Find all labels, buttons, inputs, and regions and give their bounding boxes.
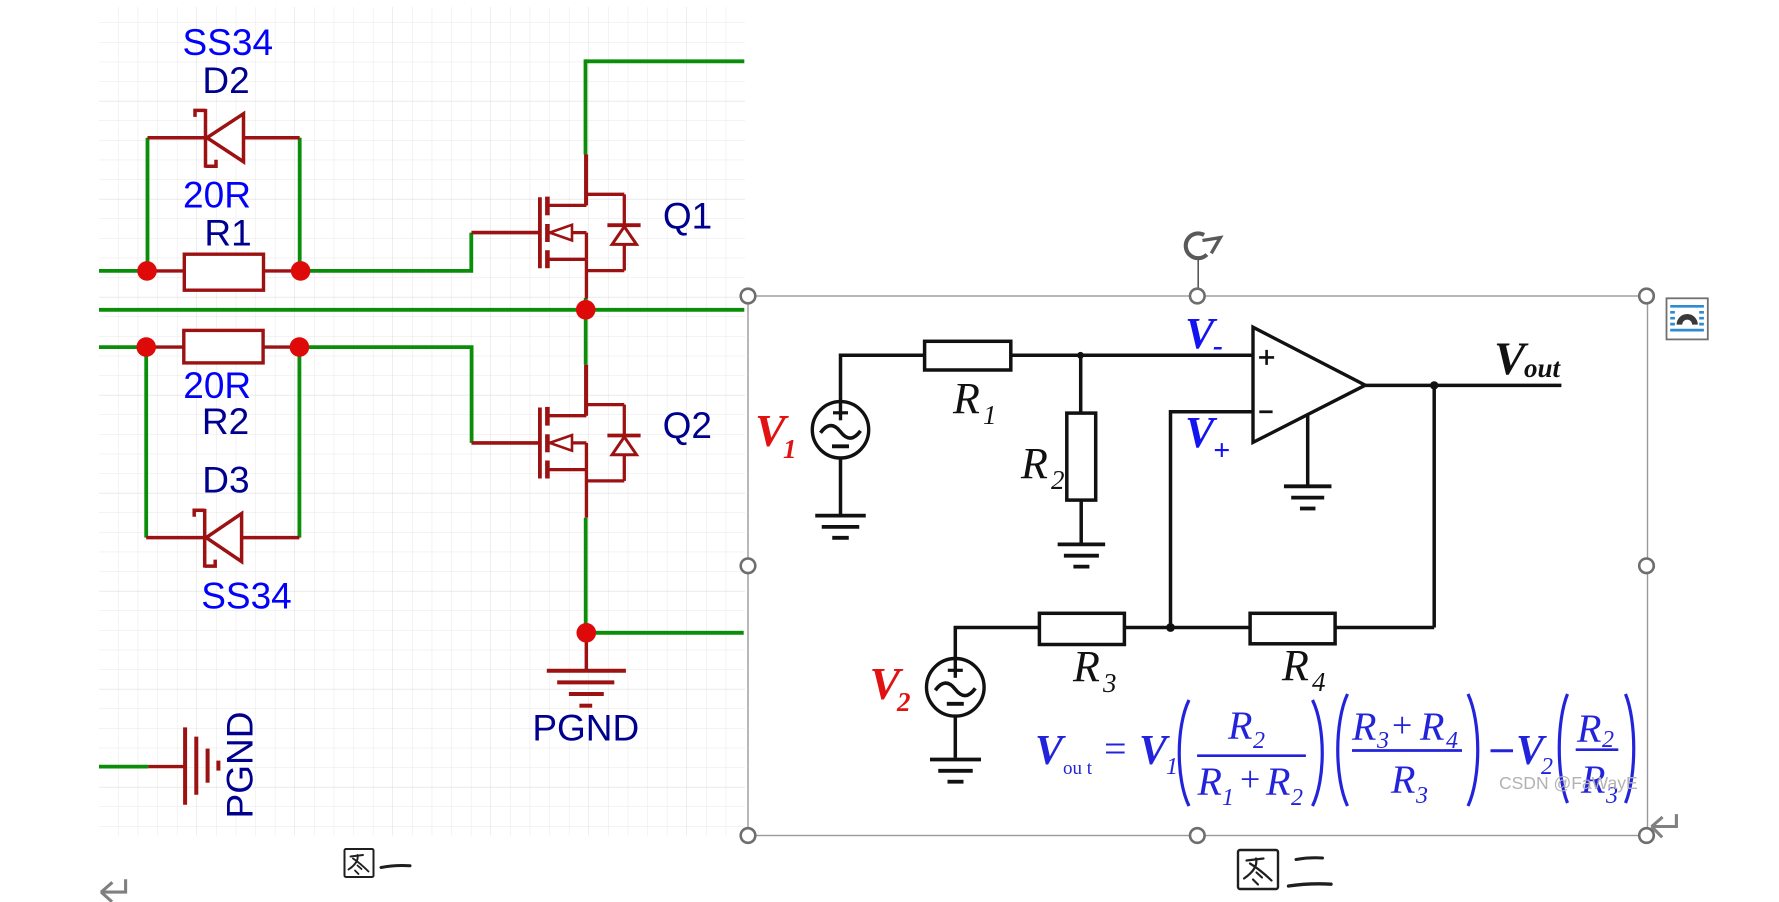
resistor R1	[925, 341, 1011, 370]
wire R1 to Q1 gate	[299, 233, 471, 271]
AC source V1	[812, 400, 868, 458]
selection rectangle of figure 2 image	[748, 296, 1648, 836]
svg-text:R2: R2	[202, 401, 249, 442]
wire V1 to ground	[839, 458, 843, 516]
selection handle mid-right	[1639, 559, 1654, 574]
schematic grid background	[99, 7, 745, 836]
svg-text:20R: 20R	[183, 365, 251, 406]
svg-text:+: +	[1240, 759, 1260, 799]
wire Q2 source to PGND node	[584, 518, 588, 633]
resistor R3	[1039, 613, 1124, 644]
ground (op-amp ground)	[1284, 486, 1332, 508]
svg-text:1: 1	[1222, 785, 1234, 811]
svg-text:out: out	[1524, 353, 1562, 383]
wire R3 to R4	[1124, 626, 1250, 630]
wire R1 row left stub	[99, 269, 148, 273]
wire R2 to Q2 gate	[298, 347, 472, 443]
wire PGND row to right edge	[586, 631, 743, 635]
caption 图一 (figure 1, drawn strokes)	[345, 849, 411, 877]
resistor R1 20R	[148, 254, 299, 290]
svg-text:D2: D2	[202, 60, 249, 101]
wire D2 left vertical	[146, 138, 150, 271]
formula Vout = V1(R2/(R1+R2))((R3+R4)/R3) - V2(R2/R3)	[1035, 694, 1634, 811]
svg-text:D3: D3	[202, 460, 249, 501]
svg-text:1: 1	[1166, 754, 1178, 780]
svg-text:R: R	[1351, 704, 1376, 749]
node phase junction on middle bus	[576, 300, 596, 320]
transistor Q1 (NMOS with body diode)	[472, 155, 641, 299]
svg-text:R: R	[1576, 706, 1601, 751]
wire V1 to R1	[841, 355, 925, 403]
AC source V2	[927, 657, 985, 717]
wire D3 right vertical	[297, 347, 301, 537]
node output junction	[1430, 381, 1438, 389]
ground (V1 ground)	[815, 516, 866, 538]
svg-text:20R: 20R	[183, 175, 251, 216]
diode D2 (SS34)	[148, 109, 300, 168]
ground (V2 ground)	[930, 760, 981, 782]
node R2 left junction	[136, 337, 156, 357]
svg-text:2: 2	[1051, 465, 1065, 495]
svg-text:+: +	[1392, 705, 1412, 745]
ground PGND (power ground under Q2)	[547, 633, 626, 706]
selection handle mid-left	[741, 559, 756, 574]
node R3/R4 feedback junction	[1166, 623, 1175, 632]
svg-text:V: V	[1035, 728, 1066, 774]
selection handle bottom-middle	[1190, 828, 1205, 843]
svg-text:CSDN @FaWayE: CSDN @FaWayE	[1499, 773, 1638, 793]
wire top net from Q1 drain to right edge	[586, 59, 745, 154]
transistor Q2 (NMOS with body diode)	[472, 365, 641, 518]
svg-text:PGND: PGND	[532, 708, 639, 749]
svg-text:-: -	[1213, 329, 1223, 362]
svg-text:R1: R1	[204, 213, 251, 254]
svg-text:1: 1	[783, 434, 797, 464]
resistor R4	[1250, 613, 1335, 644]
node PGND junction	[577, 623, 597, 643]
wire middle bus	[99, 308, 744, 312]
svg-text:R: R	[1419, 704, 1444, 749]
svg-text:ou t: ou t	[1063, 758, 1093, 779]
wire V2 to ground	[954, 716, 958, 758]
node R1 right junction	[291, 261, 311, 281]
svg-text:2: 2	[1291, 785, 1303, 811]
wire Q2 drain from middle bus	[584, 310, 588, 365]
resistor R2	[1067, 413, 1096, 500]
wire R2 row left stub	[99, 345, 147, 349]
svg-text:R: R	[1020, 439, 1048, 488]
wire output down to R4	[1432, 385, 1436, 627]
svg-text:=: =	[1104, 726, 1127, 771]
wire V2 up to R3	[955, 628, 1039, 660]
wire D2 right vertical	[298, 138, 302, 271]
ground PGND (left, rotated)	[148, 727, 218, 804]
op-amp U1	[1253, 327, 1365, 442]
svg-text:+: +	[1213, 434, 1230, 467]
svg-text:R: R	[1072, 642, 1100, 691]
wire R4 to output branch	[1335, 626, 1434, 630]
node R1 left junction	[137, 261, 157, 281]
svg-text:R: R	[1265, 759, 1290, 804]
svg-text:SS34: SS34	[201, 576, 292, 617]
Q2 drain pin	[584, 365, 587, 416]
selection handle top-middle	[1190, 289, 1205, 304]
resistor R2 20R	[147, 330, 298, 363]
rotate handle stem	[1197, 260, 1199, 289]
wire op-amp ground pin	[1306, 415, 1310, 487]
svg-text:3: 3	[1415, 783, 1428, 809]
wire Q1 source to middle bus	[584, 298, 588, 310]
node R2 right junction	[290, 337, 310, 357]
rotate handle icon	[1186, 233, 1221, 258]
wire R1 to op-amp plus input	[1011, 354, 1252, 358]
paragraph return mark (right of figure 2)	[1652, 814, 1677, 837]
selection handle top-left	[741, 289, 756, 304]
svg-text:1: 1	[983, 400, 997, 430]
svg-text:SS34: SS34	[183, 22, 274, 63]
wire D3 left vertical	[144, 347, 148, 537]
node R1/R2 junction	[1077, 352, 1084, 359]
svg-text:4: 4	[1312, 667, 1326, 697]
svg-text:R: R	[1197, 759, 1222, 804]
caption 图二 (figure 2, drawn strokes)	[1238, 850, 1331, 889]
diode D3 (SS34)	[146, 509, 299, 568]
wire left PGND stub	[99, 765, 148, 769]
wire R2 to ground	[1079, 500, 1083, 544]
ground (R2 ground)	[1058, 544, 1106, 566]
paragraph return mark (bottom left)	[101, 879, 126, 902]
selection handle bottom-left	[741, 828, 756, 843]
layout options button	[1667, 298, 1708, 339]
wire op-amp output Vout	[1363, 384, 1561, 388]
wire junction down to R2	[1079, 355, 1083, 413]
svg-text:Q1: Q1	[663, 196, 712, 237]
svg-text:2: 2	[1253, 728, 1265, 754]
selection handle top-right	[1639, 289, 1654, 304]
wire feedback node to op-amp minus input	[1171, 412, 1254, 628]
Q1 drain pin	[584, 155, 587, 206]
svg-text:3: 3	[1102, 668, 1117, 698]
svg-text:R: R	[952, 374, 980, 423]
svg-text:2: 2	[896, 687, 911, 717]
svg-text:R: R	[1227, 703, 1252, 748]
selection handle bottom-right	[1639, 828, 1654, 843]
svg-text:Q2: Q2	[663, 405, 712, 446]
svg-text:R: R	[1390, 757, 1415, 802]
svg-text:R: R	[1281, 641, 1309, 690]
svg-text:PGND: PGND	[220, 712, 261, 819]
